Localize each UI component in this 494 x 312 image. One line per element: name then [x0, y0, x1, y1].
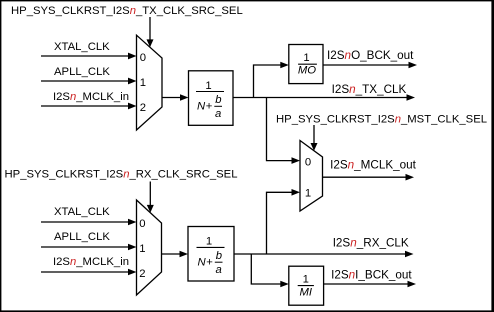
svg-text:HP_SYS_CLKRST_I2Sn_TX_CLK_SRC_: HP_SYS_CLKRST_I2Sn_TX_CLK_SRC_SEL [11, 5, 243, 17]
svg-text:I2Sn_MCLK_in: I2Sn_MCLK_in [53, 256, 129, 268]
svg-text:0: 0 [139, 218, 145, 230]
svg-text:I2Sn_RX_CLK: I2Sn_RX_CLK [333, 237, 409, 250]
arrow M1 in1 [128, 78, 137, 85]
svg-text:I2SnI_BCK_out: I2SnI_BCK_out [331, 268, 412, 281]
svg-text:APLL_CLK: APLL_CLK [54, 66, 110, 78]
svg-text:N: N [198, 256, 207, 268]
arrow into M1 top [147, 39, 154, 47]
svg-text:2: 2 [139, 268, 145, 280]
svg-text:N: N [197, 101, 206, 113]
arrow M1 in2 [128, 103, 137, 110]
arrow into MI [280, 281, 289, 288]
arrow M1 in0 [128, 53, 137, 60]
svg-text:I2SnO_BCK_out: I2SnO_BCK_out [327, 49, 414, 62]
svg-text:I2Sn_MCLK_out: I2Sn_MCLK_out [330, 159, 417, 172]
arrow M2 in0 [292, 157, 301, 164]
svg-text:1: 1 [303, 273, 309, 285]
svg-text:1: 1 [305, 188, 311, 200]
wire XTAL_CLK to M1 in0 [41, 55, 129, 57]
svg-text:1: 1 [140, 77, 146, 89]
svg-text:1: 1 [206, 236, 212, 248]
arrow M3 in2 [128, 269, 137, 276]
wire APLL_CLK to M1 in1 [41, 80, 129, 82]
arrow I2SnI_BCK_out [408, 281, 417, 288]
arrow M2 in1 [292, 189, 301, 196]
divider MO box 1/MO [289, 45, 323, 84]
svg-text:a: a [216, 264, 222, 276]
arrow I2Sn_MCLK_out [406, 174, 415, 181]
wire D2 out to I2Sn_RX_CLK arrow [234, 253, 406, 255]
divider MI box 1/MI [289, 266, 324, 305]
svg-text:2: 2 [140, 102, 146, 114]
wire XTAL_CLK to M3 in0 [41, 221, 129, 223]
wire label RX_SRC_SEL to mux M3 [149, 182, 151, 207]
divider D1 box 1/(N+b/a) [189, 71, 234, 126]
arrow into MO [280, 62, 289, 69]
svg-text:b: b [215, 94, 221, 106]
svg-text:0: 0 [305, 157, 311, 169]
svg-text:1: 1 [205, 80, 211, 92]
arrow into D1 [180, 94, 189, 101]
wire MO out to I2SnO_BCK_out arrow [323, 64, 409, 66]
wire RX branch up to M2 in1 [267, 192, 293, 254]
wire M1 out to divider D1 [162, 97, 181, 99]
wire APLL_CLK to M3 in1 [41, 246, 129, 248]
arrow I2Sn_RX_CLK [405, 251, 414, 258]
arrow I2Sn_TX_CLK [407, 94, 416, 101]
wire D1 out to I2Sn_TX_CLK arrow [233, 97, 407, 99]
svg-text:MI: MI [300, 286, 313, 298]
svg-text:I2Sn_MCLK_in: I2Sn_MCLK_in [53, 91, 129, 103]
wire I2Sn_MCLK_in to M3 in2 [41, 271, 129, 273]
svg-text:APLL_CLK: APLL_CLK [54, 231, 110, 243]
wire M2 out to I2Sn_MCLK_out arrow [323, 176, 407, 178]
wire branch down to MI divider [251, 254, 281, 284]
wire label TX_SRC_SEL to mux M1 [149, 17, 151, 41]
arrow M3 in0 [128, 219, 137, 226]
svg-text:0: 0 [140, 52, 146, 64]
arrow into D2 [180, 251, 189, 258]
svg-text:XTAL_CLK: XTAL_CLK [54, 206, 110, 218]
divider D2 box 1/(N+b/a) [188, 227, 234, 282]
mux M3 (RX clock source select) [137, 200, 162, 295]
wire branch up to MO divider [254, 65, 282, 98]
wire I2Sn_MCLK_in to M1 in2 [41, 105, 129, 107]
svg-text:a: a [215, 108, 221, 120]
svg-text:XTAL_CLK: XTAL_CLK [54, 41, 110, 53]
arrow I2SnO_BCK_out [409, 62, 418, 69]
svg-text:1: 1 [303, 52, 309, 64]
svg-text:+: + [206, 256, 213, 268]
mux M2 (MST clock select) [300, 141, 323, 212]
wire MI out to I2SnI_BCK_out arrow [324, 283, 408, 285]
arrowheads [128, 39, 417, 287]
svg-text:b: b [216, 250, 222, 262]
wire label MST_CLK_SEL to mux M2 [313, 125, 315, 144]
svg-text:+: + [206, 101, 213, 113]
arrow into M3 top [147, 205, 154, 213]
arrow into M2 top [311, 143, 318, 151]
svg-text:HP_SYS_CLKRST_I2Sn_MST_CLK_SEL: HP_SYS_CLKRST_I2Sn_MST_CLK_SEL [276, 113, 487, 125]
wire branch down to mux M2 in0 [267, 98, 293, 161]
svg-text:I2Sn_TX_CLK: I2Sn_TX_CLK [332, 83, 407, 96]
svg-text:HP_SYS_CLKRST_I2Sn_RX_CLK_SRC_: HP_SYS_CLKRST_I2Sn_RX_CLK_SRC_SEL [5, 169, 238, 181]
mux M1 (TX clock source select) [137, 35, 163, 130]
arrow M3 in1 [128, 244, 137, 251]
svg-text:1: 1 [139, 243, 145, 255]
wire M3 out to divider D2 [162, 253, 181, 255]
svg-text:MO: MO [298, 65, 316, 77]
